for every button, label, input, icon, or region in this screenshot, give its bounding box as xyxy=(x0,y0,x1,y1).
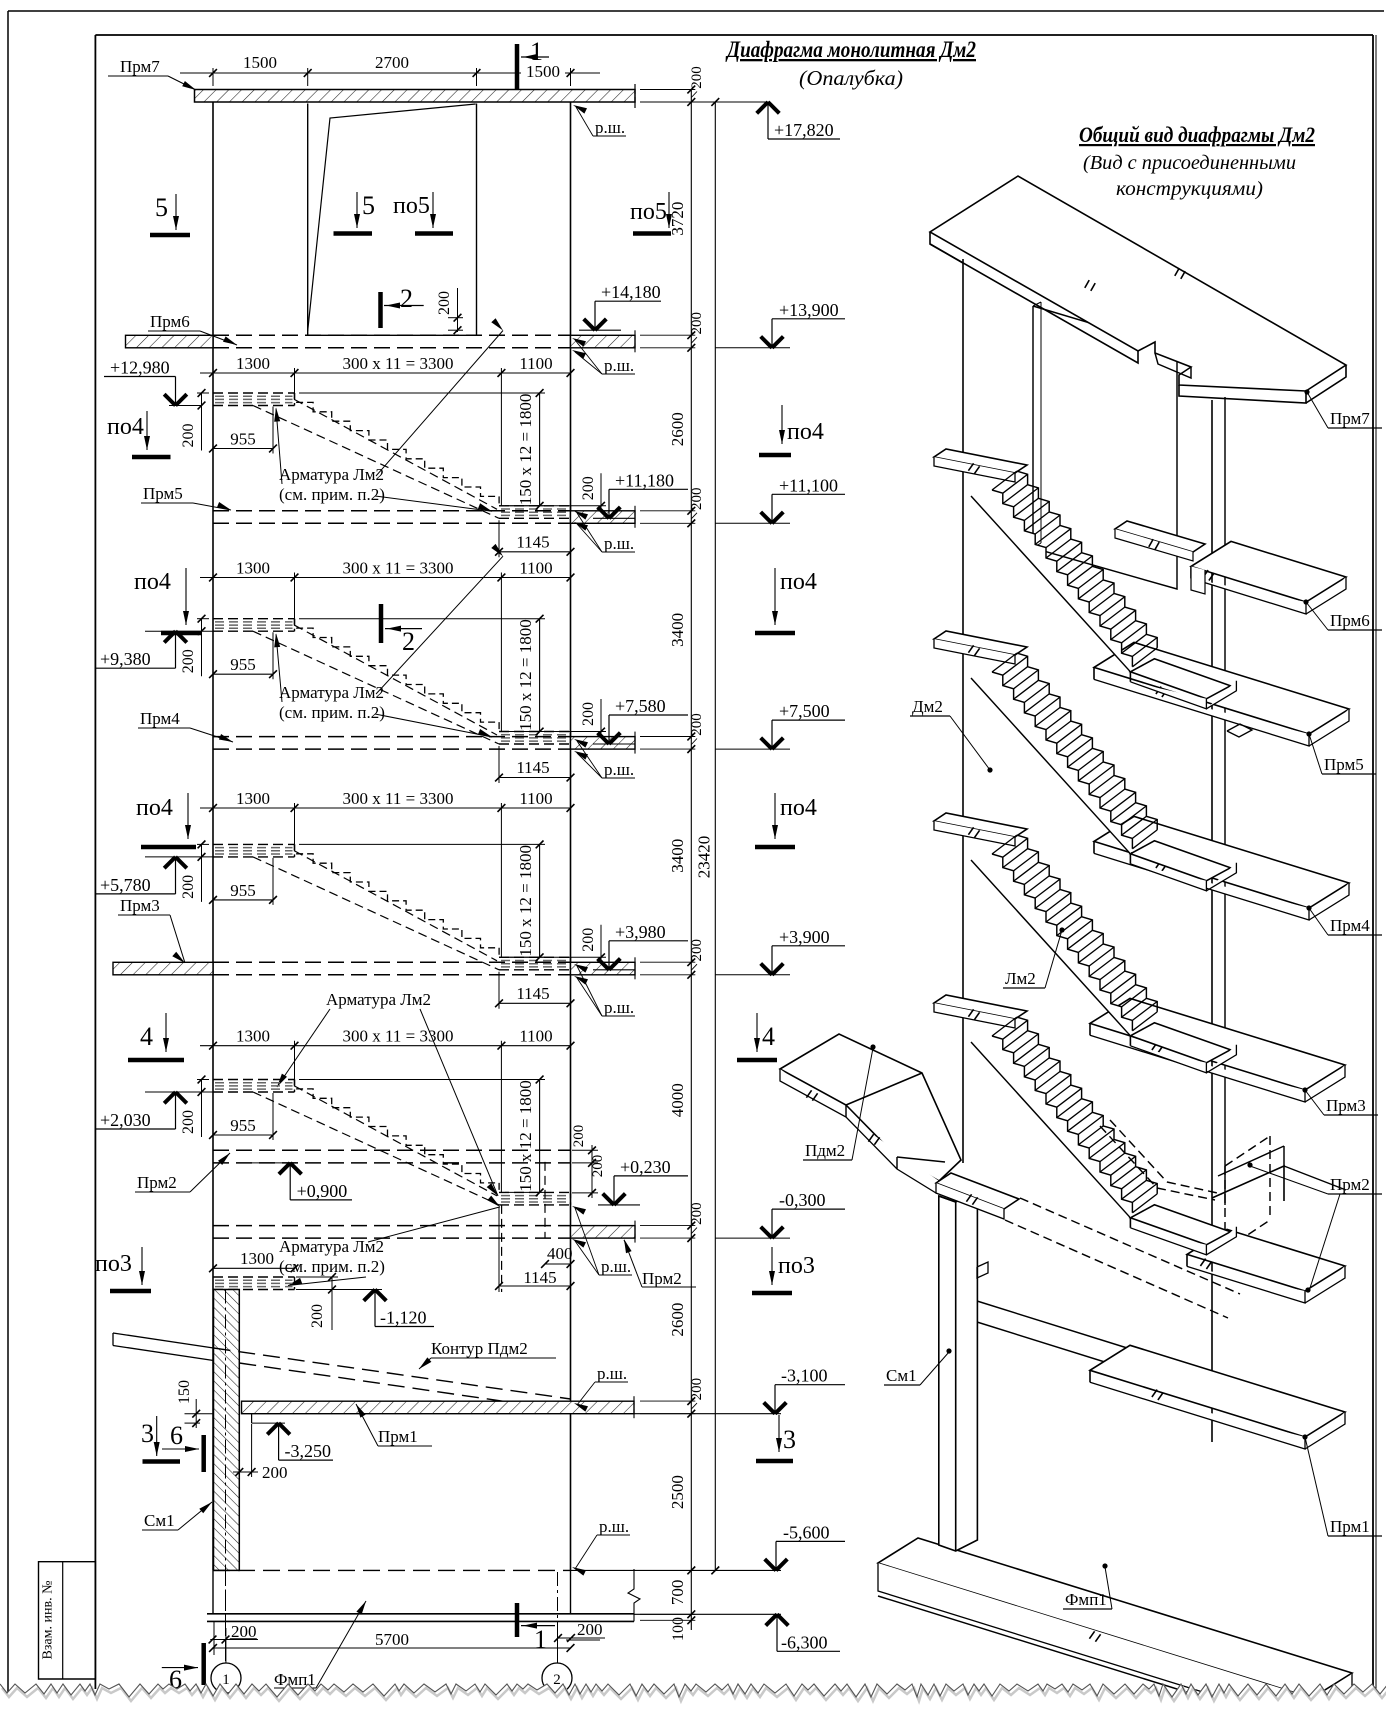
svg-text:р.ш.: р.ш. xyxy=(597,1364,627,1383)
svg-text:Прм1: Прм1 xyxy=(378,1427,418,1446)
iso ramp Пдм2 xyxy=(780,1034,961,1181)
svg-text:3400: 3400 xyxy=(668,613,687,647)
level flag +7,500 xyxy=(761,738,772,749)
iso Прм6 left step xyxy=(1191,566,1205,594)
section mark 2 floor1 xyxy=(378,292,383,328)
stamp box Взам. инв. № xyxy=(39,1562,96,1679)
vertical dim line 1 xyxy=(690,90,692,1631)
svg-text:2600: 2600 xyxy=(668,412,687,446)
floor 1 lower landing xyxy=(499,505,571,507)
floor 2 dim 200 left landing thickness xyxy=(201,619,203,677)
floor 3 dim 200 right landing thickness xyxy=(600,925,602,971)
level flag -5,600 xyxy=(765,1559,776,1570)
foundation break mark xyxy=(628,1569,640,1621)
svg-text:5700: 5700 xyxy=(375,1630,409,1649)
iso Прм1 plate xyxy=(1090,1345,1345,1437)
svg-text:2700: 2700 xyxy=(375,53,409,72)
svg-text:300 x 11 = 3300: 300 x 11 = 3300 xyxy=(343,789,454,808)
dim 200 5700 200 bottom xyxy=(210,1639,258,1641)
slab at +0,900 dashed band xyxy=(213,1149,571,1151)
svg-text:+14,180: +14,180 xyxy=(601,282,661,302)
svg-text:1145: 1145 xyxy=(516,532,549,551)
svg-text:Прм5: Прм5 xyxy=(143,484,183,503)
svg-text:1300: 1300 xyxy=(236,559,270,578)
floor 1 flight soffit dashed lines xyxy=(295,400,498,510)
svg-text:150: 150 xyxy=(176,1380,193,1404)
svg-text:-1,120: -1,120 xyxy=(380,1308,427,1328)
svg-text:700: 700 xyxy=(668,1580,687,1606)
level line -5,600 solid right xyxy=(571,1569,782,1571)
svg-text:р.ш.: р.ш. xyxy=(604,356,634,375)
svg-text:+3,980: +3,980 xyxy=(615,922,666,942)
level flag +3,980 xyxy=(593,969,635,971)
iso flight 1 steps xyxy=(1130,659,1230,699)
vertical dim line 2 xyxy=(714,102,716,1570)
wall edges below -5,600 xyxy=(212,1570,214,1613)
step under Прм1 xyxy=(251,1414,253,1423)
svg-text:р.ш.: р.ш. xyxy=(595,118,625,137)
level flag +3,900 xyxy=(761,964,772,975)
svg-text:Взам. инв. №: Взам. инв. № xyxy=(41,1581,56,1660)
svg-text:+0,230: +0,230 xyxy=(620,1157,671,1177)
svg-text:(см. прим. п.2): (см. прим. п.2) xyxy=(279,485,385,504)
top opening jamb left xyxy=(307,104,309,336)
svg-text:200: 200 xyxy=(580,702,597,726)
svg-text:1300: 1300 xyxy=(236,354,270,373)
iso hidden Прм2 dashed box xyxy=(1269,1136,1271,1220)
axis line through column xyxy=(225,1290,227,1664)
svg-text:-5,600: -5,600 xyxy=(783,1522,830,1542)
svg-text:4000: 4000 xyxy=(668,1083,687,1117)
svg-text:200: 200 xyxy=(231,1622,257,1641)
svg-text:р.ш.: р.ш. xyxy=(601,1257,631,1276)
svg-text:5: 5 xyxy=(155,193,168,222)
wall Дм2 right edge xyxy=(570,102,572,1570)
slab Прм6 left band xyxy=(126,335,214,348)
dim 150 Прм1 to -3,250 xyxy=(195,1399,197,1428)
landing -1,120 xyxy=(213,1276,295,1278)
level flag -1,120 xyxy=(300,1289,382,1291)
svg-text:Прм1: Прм1 xyxy=(1330,1517,1370,1536)
svg-text:-0,300: -0,300 xyxy=(779,1190,826,1210)
svg-text:р.ш.: р.ш. xyxy=(599,1517,629,1536)
svg-text:+9,380: +9,380 xyxy=(100,649,151,669)
slab Прм3 dashed xyxy=(213,961,571,963)
svg-text:Прм4: Прм4 xyxy=(140,709,180,728)
axis line 1 xyxy=(225,1572,227,1663)
svg-text:955: 955 xyxy=(230,881,256,900)
slab Прм3 left band xyxy=(113,962,213,975)
svg-text:+3,900: +3,900 xyxy=(779,927,830,947)
svg-text:200: 200 xyxy=(577,1620,603,1639)
level flag +5,780 xyxy=(164,857,175,868)
svg-text:Лм2: Лм2 xyxy=(1005,969,1036,988)
svg-text:+11,100: +11,100 xyxy=(779,475,838,495)
svg-text:Прм2: Прм2 xyxy=(1330,1175,1370,1194)
svg-text:1: 1 xyxy=(222,1672,230,1688)
svg-text:1300: 1300 xyxy=(240,1249,274,1268)
svg-text:1300: 1300 xyxy=(236,1027,270,1046)
iso flight 3 upper landing plate xyxy=(934,813,1027,837)
floor 4 lower landing xyxy=(499,1191,571,1193)
svg-text:2: 2 xyxy=(553,1672,561,1688)
section mark 1 top xyxy=(515,44,520,90)
iso Прм6 plate xyxy=(1191,541,1346,602)
svg-text:200: 200 xyxy=(580,476,597,500)
svg-text:Контур Пдм2: Контур Пдм2 xyxy=(431,1339,528,1358)
svg-text:Прм5: Прм5 xyxy=(1324,755,1364,774)
slab Прм5 right band xyxy=(571,511,636,524)
axis circle 1 xyxy=(211,1663,241,1693)
svg-text:150 x 12 = 1800: 150 x 12 = 1800 xyxy=(516,1080,535,1192)
level flag +12,980 xyxy=(164,394,175,405)
svg-text:200: 200 xyxy=(262,1463,288,1482)
svg-text:+12,980: +12,980 xyxy=(110,358,170,378)
svg-text:200: 200 xyxy=(180,649,197,673)
floor 2 lower landing xyxy=(499,731,571,733)
slab Прм3 right band xyxy=(571,962,636,975)
foundation Фмп1 slab xyxy=(207,1613,634,1615)
iso landing plate -1,120 xyxy=(936,1173,1019,1209)
iso small console on wall xyxy=(977,1262,988,1278)
dim 1500 2700 1500 top xyxy=(180,72,600,74)
level flag -0,300 xyxy=(761,1227,772,1238)
column См1 hatched xyxy=(214,1290,240,1571)
floor 4 stair flight Лм2 zigzag xyxy=(295,1080,500,1193)
svg-text:4: 4 xyxy=(762,1022,775,1051)
svg-text:р.ш.: р.ш. xyxy=(604,534,634,553)
svg-text:Арматура Лм2: Арматура Лм2 xyxy=(279,465,384,484)
level flag -6,300 xyxy=(766,1614,777,1625)
svg-text:300 x 11 = 3300: 300 x 11 = 3300 xyxy=(343,559,454,578)
svg-text:1100: 1100 xyxy=(519,1027,552,1046)
iso flight 4 steps xyxy=(1130,1205,1230,1245)
iso top window opening xyxy=(1033,306,1177,589)
svg-text:2600: 2600 xyxy=(668,1303,687,1337)
svg-text:+7,580: +7,580 xyxy=(615,696,666,716)
level flag +11,100 xyxy=(761,512,772,523)
svg-text:по4: по4 xyxy=(780,569,817,595)
iso column См1 xyxy=(939,1191,978,1551)
svg-text:4: 4 xyxy=(140,1022,153,1051)
svg-text:(Опалубка): (Опалубка) xyxy=(799,66,903,90)
iso Прм2 plate xyxy=(1187,1229,1345,1291)
svg-text:955: 955 xyxy=(230,655,256,674)
svg-text:200: 200 xyxy=(689,1202,705,1225)
svg-text:200: 200 xyxy=(689,488,705,511)
svg-text:5: 5 xyxy=(362,191,375,220)
svg-text:по3: по3 xyxy=(95,1251,132,1277)
floor 3 dim 955 xyxy=(213,899,273,901)
tear edge overlay xyxy=(0,1684,1386,1710)
svg-text:по4: по4 xyxy=(780,795,817,821)
svg-text:150 x 12 = 1800: 150 x 12 = 1800 xyxy=(516,394,535,506)
svg-text:200: 200 xyxy=(436,291,453,315)
svg-text:Прм3: Прм3 xyxy=(120,896,160,915)
svg-text:23420: 23420 xyxy=(695,836,714,879)
svg-text:по4: по4 xyxy=(134,569,171,595)
svg-text:по3: по3 xyxy=(778,1253,815,1279)
svg-text:-6,300: -6,300 xyxy=(781,1632,828,1652)
svg-text:+2,030: +2,030 xyxy=(100,1110,151,1130)
slab Прм2 dashed xyxy=(213,1225,571,1227)
svg-text:200: 200 xyxy=(180,875,197,899)
svg-text:См1: См1 xyxy=(144,1511,175,1530)
floor 4 dim 150x12=1800 xyxy=(539,1080,541,1193)
wedge outline under top slab xyxy=(308,104,476,331)
iso Прм2 through-wall support box xyxy=(1212,1166,1284,1201)
slab Прм4 right band xyxy=(571,737,636,750)
svg-text:6: 6 xyxy=(170,1421,183,1450)
svg-text:1145: 1145 xyxy=(516,984,549,1003)
floor 1 dim 150x12=1800 xyxy=(539,393,541,506)
floor 1 dim 955 xyxy=(213,448,273,450)
svg-text:3400: 3400 xyxy=(668,839,687,873)
svg-text:200: 200 xyxy=(689,66,705,89)
floor 2 stair flight Лм2 zigzag xyxy=(295,619,500,732)
svg-text:300 x 11 = 3300: 300 x 11 = 3300 xyxy=(343,1027,454,1046)
svg-text:+0,900: +0,900 xyxy=(297,1181,348,1201)
svg-text:по4: по4 xyxy=(787,419,824,445)
slab Прм6 dashed between walls xyxy=(213,334,571,336)
iso flight 2 steps xyxy=(1130,841,1230,881)
level flag +13,900 xyxy=(761,337,772,348)
floor 2 dim 150x12=1800 xyxy=(539,619,541,732)
floor 1 upper landing xyxy=(213,392,295,394)
section mark 1 bottom xyxy=(515,1603,520,1637)
floor 3 dim 1145 xyxy=(499,1002,571,1004)
flag -3,250 xyxy=(267,1423,278,1434)
svg-text:+17,820: +17,820 xyxy=(774,120,834,140)
svg-text:200: 200 xyxy=(180,1110,197,1134)
slab Прм7 top xyxy=(195,90,636,103)
svg-text:1: 1 xyxy=(534,1625,547,1654)
svg-text:1145: 1145 xyxy=(516,758,549,777)
section mark 2 floor2 xyxy=(379,604,384,643)
floor 2 dim 1145 xyxy=(499,777,571,779)
floor 3 lower landing xyxy=(499,956,571,958)
svg-text:200: 200 xyxy=(571,1125,587,1148)
svg-text:3: 3 xyxy=(141,1419,154,1448)
slab Прм6 right band xyxy=(571,335,636,348)
level flag +9,380 xyxy=(164,631,175,642)
svg-text:Прм2: Прм2 xyxy=(137,1173,177,1192)
iso flight 3 steps xyxy=(1130,1023,1230,1063)
iso Прм4 plate xyxy=(1094,816,1349,908)
svg-text:+5,780: +5,780 xyxy=(100,875,151,895)
floor 2 upper landing xyxy=(213,618,295,620)
slab Прм5 dashed xyxy=(213,510,571,512)
svg-text:Арматура Лм2: Арматура Лм2 xyxy=(326,990,431,1009)
iso hidden stair5 dashed xyxy=(1020,1198,1240,1294)
svg-text:1145: 1145 xyxy=(523,1268,556,1287)
level flag +0,900 xyxy=(252,1162,296,1164)
svg-text:2: 2 xyxy=(402,627,415,656)
svg-text:конструкциями): конструкциями) xyxy=(1116,178,1263,200)
svg-text:400: 400 xyxy=(547,1244,573,1263)
svg-text:Дм2: Дм2 xyxy=(912,697,943,716)
level flag +2,030 xyxy=(164,1092,175,1103)
svg-text:200: 200 xyxy=(689,939,705,962)
floor 2 dim 200 right landing thickness xyxy=(600,699,602,745)
svg-text:Диафрагма монолитная Дм2: Диафрагма монолитная Дм2 xyxy=(725,37,976,62)
ramp Контур Пдм2 dashed xyxy=(214,1348,571,1399)
iso Прм3 plate xyxy=(1090,998,1345,1090)
svg-text:(Вид с присоединенными: (Вид с присоединенными xyxy=(1083,152,1296,174)
iso foundation Фмп1 xyxy=(878,1538,1352,1698)
level line -6,300 xyxy=(634,1613,781,1615)
slab Прм1 hatched band xyxy=(242,1401,635,1414)
svg-text:+7,500: +7,500 xyxy=(779,701,830,721)
svg-text:по5: по5 xyxy=(393,193,430,219)
dim 1145 floor4 xyxy=(499,1285,571,1287)
iso flight 2 upper landing plate xyxy=(934,631,1027,655)
svg-text:См1: См1 xyxy=(886,1366,917,1385)
svg-text:955: 955 xyxy=(230,1116,256,1135)
dim 200 under Прм1 step xyxy=(238,1424,240,1477)
svg-text:1: 1 xyxy=(530,37,543,66)
svg-text:р.ш.: р.ш. xyxy=(604,998,634,1017)
level flag +7,580 xyxy=(593,743,635,745)
floor 2 dim 955 xyxy=(213,673,273,675)
svg-text:(см. прим. п.2): (см. прим. п.2) xyxy=(279,703,385,722)
construction joint -5,600 dashed xyxy=(213,1569,571,1571)
svg-text:по4: по4 xyxy=(136,795,173,821)
level flag +14,180 xyxy=(579,329,621,331)
slab Прм6 top edge visible through opening xyxy=(308,334,477,336)
floor 4 dim 200 left landing thickness xyxy=(201,1080,203,1138)
iso flight 4 upper landing plate xyxy=(934,995,1027,1019)
floor 1 stair flight Лм2 zigzag xyxy=(295,393,500,506)
hidden door edge dashed x=545 xyxy=(544,1162,546,1238)
floor 3 upper landing xyxy=(213,843,295,845)
svg-text:Арматура Лм2: Арматура Лм2 xyxy=(279,1237,384,1256)
level flag +11,180 xyxy=(593,517,635,519)
floor 3 dim 200 left landing thickness xyxy=(201,844,203,902)
dim 200 floor4 right stack xyxy=(591,1145,593,1198)
svg-text:(см. прим. п.2): (см. прим. п.2) xyxy=(279,1257,385,1276)
svg-text:200: 200 xyxy=(580,928,597,952)
svg-text:300 x 11 = 3300: 300 x 11 = 3300 xyxy=(343,354,454,373)
svg-text:по4: по4 xyxy=(107,414,144,440)
dim 400 floor4 xyxy=(545,1263,571,1265)
svg-text:1300: 1300 xyxy=(236,789,270,808)
svg-text:2: 2 xyxy=(400,284,413,313)
svg-text:2500: 2500 xyxy=(668,1475,687,1509)
svg-text:Прм7: Прм7 xyxy=(120,57,160,76)
svg-text:3: 3 xyxy=(783,1425,796,1454)
svg-text:1100: 1100 xyxy=(519,559,552,578)
level flag -3,100 xyxy=(764,1402,775,1413)
floor 4 dim 955 xyxy=(213,1134,273,1136)
iso Прм5 plate xyxy=(1094,642,1349,734)
svg-text:200: 200 xyxy=(689,312,705,335)
ramp Пдм2 solid part left of wall xyxy=(113,1333,214,1348)
iso flight 1 upper landing plate xyxy=(934,449,1027,473)
axis circle 2 xyxy=(542,1663,572,1693)
axis line 2 xyxy=(557,1572,559,1663)
hidden door edge dashed x=501.6 xyxy=(501,1205,503,1292)
slab Прм4 dashed xyxy=(213,736,571,738)
drawing frame xyxy=(95,34,1373,36)
svg-text:Прм7: Прм7 xyxy=(1330,409,1370,428)
svg-text:1100: 1100 xyxy=(519,789,552,808)
svg-text:200: 200 xyxy=(180,424,197,448)
svg-text:150 x 12 = 1800: 150 x 12 = 1800 xyxy=(516,845,535,957)
floor 1 dim 200 left landing thickness xyxy=(201,393,203,451)
svg-text:-3,250: -3,250 xyxy=(285,1441,332,1461)
svg-text:Прм6: Прм6 xyxy=(1330,611,1370,630)
floor 3 flight soffit dashed lines xyxy=(295,851,498,961)
floor 4 flight soffit dashed lines xyxy=(295,1086,498,1196)
floor 1 dim 1145 xyxy=(499,551,571,553)
wall Дм2 left edge xyxy=(212,102,214,1570)
svg-text:955: 955 xyxy=(230,430,256,449)
svg-text:200: 200 xyxy=(689,1378,705,1401)
svg-text:+13,900: +13,900 xyxy=(779,300,839,320)
svg-text:1500: 1500 xyxy=(243,53,277,72)
iso hidden flight4 soffit dashed xyxy=(1100,1126,1157,1188)
floor 1 dim row 1300 / 300x11=3300 / 1100 xyxy=(200,372,571,374)
floor 4 dim row 1300 / 300x11=3300 / 1100 xyxy=(200,1045,571,1047)
page edge xyxy=(8,10,1384,12)
svg-text:+11,180: +11,180 xyxy=(615,470,674,490)
floor 3 dim 150x12=1800 xyxy=(539,844,541,957)
iso top slab Прм7 xyxy=(930,176,1346,391)
level flag +17,820 xyxy=(757,102,768,113)
level line -3,100 extension xyxy=(634,1413,781,1415)
iso landing plate +14,180 at wall xyxy=(1115,521,1205,552)
svg-text:Фмп1: Фмп1 xyxy=(1065,1590,1107,1609)
svg-text:150 x 12 = 1800: 150 x 12 = 1800 xyxy=(516,619,535,731)
svg-text:Прм3: Прм3 xyxy=(1326,1096,1366,1115)
slab Прм2 right band xyxy=(571,1226,636,1239)
floor 3 stair flight Лм2 zigzag xyxy=(295,844,500,957)
svg-text:Прм6: Прм6 xyxy=(150,312,190,331)
top opening jamb right xyxy=(476,104,478,336)
svg-text:Прм2: Прм2 xyxy=(642,1269,682,1288)
svg-text:р.ш.: р.ш. xyxy=(604,760,634,779)
floor 2 flight soffit dashed lines xyxy=(295,625,498,735)
svg-text:Арматура Лм2: Арматура Лм2 xyxy=(279,683,384,702)
svg-text:Прм4: Прм4 xyxy=(1330,916,1370,935)
dim 200 landing +14,180 xyxy=(457,288,459,332)
svg-text:200: 200 xyxy=(689,713,705,736)
floor 1 dim 200 right landing thickness xyxy=(600,473,602,519)
floor 4 upper landing xyxy=(213,1079,295,1081)
iso wall band lines to Прм1 xyxy=(977,1301,1140,1352)
svg-text:200: 200 xyxy=(590,1155,606,1178)
floor 3 dim row 1300 / 300x11=3300 / 1100 xyxy=(200,807,571,809)
iso wall Дм2 face xyxy=(963,259,1212,1440)
svg-text:-3,100: -3,100 xyxy=(781,1366,828,1386)
svg-text:200: 200 xyxy=(309,1304,326,1328)
svg-text:по5: по5 xyxy=(630,199,667,225)
level flag +0,230 xyxy=(598,1204,640,1206)
dim 200 bottom landing thickness xyxy=(331,1277,333,1330)
svg-text:Пдм2: Пдм2 xyxy=(805,1141,845,1160)
floor 2 dim row 1300 / 300x11=3300 / 1100 xyxy=(200,577,571,579)
svg-text:1100: 1100 xyxy=(519,354,552,373)
dim 1300 bottom landing xyxy=(213,1267,295,1269)
iso Прм5 hole xyxy=(1227,724,1252,737)
svg-text:Общий вид диафрагмы Дм2: Общий вид диафрагмы Дм2 xyxy=(1079,122,1315,147)
